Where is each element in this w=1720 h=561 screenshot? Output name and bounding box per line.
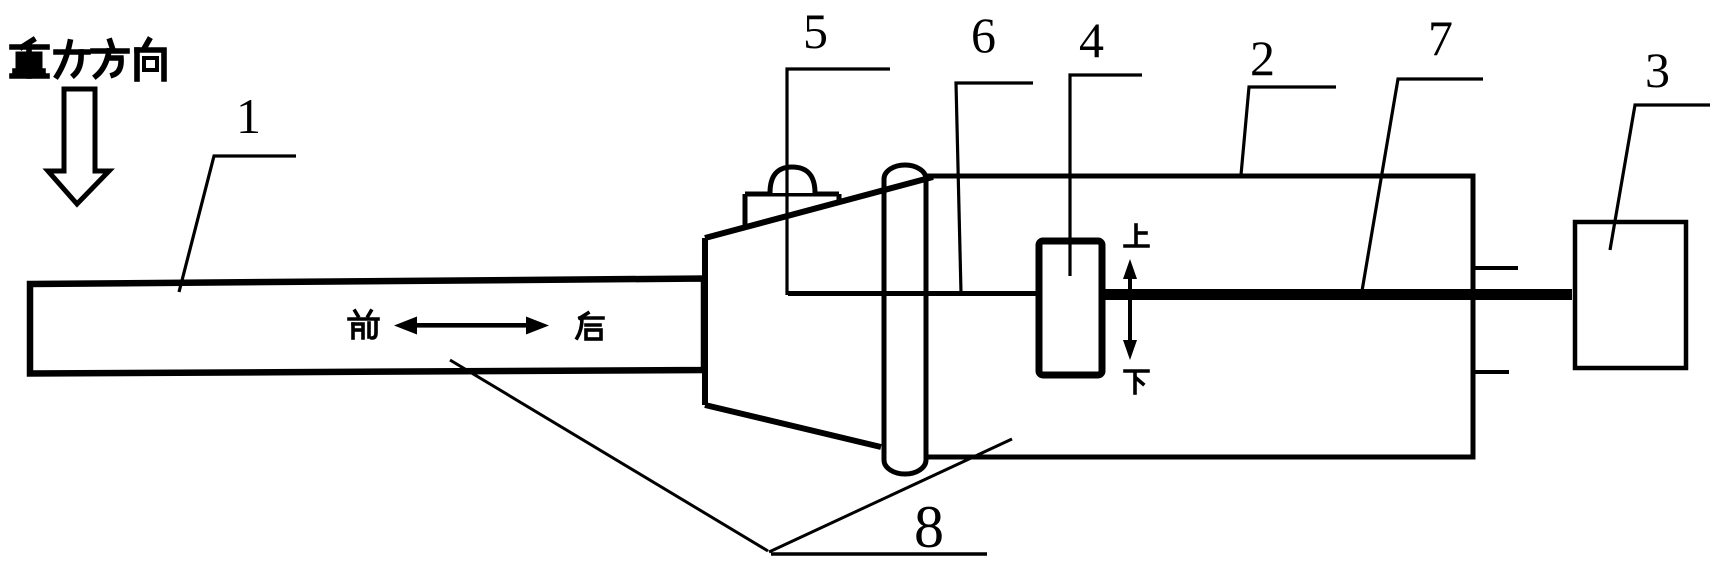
svg-text:7: 7 xyxy=(1428,10,1453,66)
svg-text:1: 1 xyxy=(236,88,261,144)
svg-text:8: 8 xyxy=(914,494,944,560)
svg-text:3: 3 xyxy=(1645,42,1670,98)
svg-text:5: 5 xyxy=(803,3,828,59)
svg-text:2: 2 xyxy=(1250,30,1275,86)
svg-text:4: 4 xyxy=(1079,12,1104,68)
svg-text:6: 6 xyxy=(971,7,996,63)
